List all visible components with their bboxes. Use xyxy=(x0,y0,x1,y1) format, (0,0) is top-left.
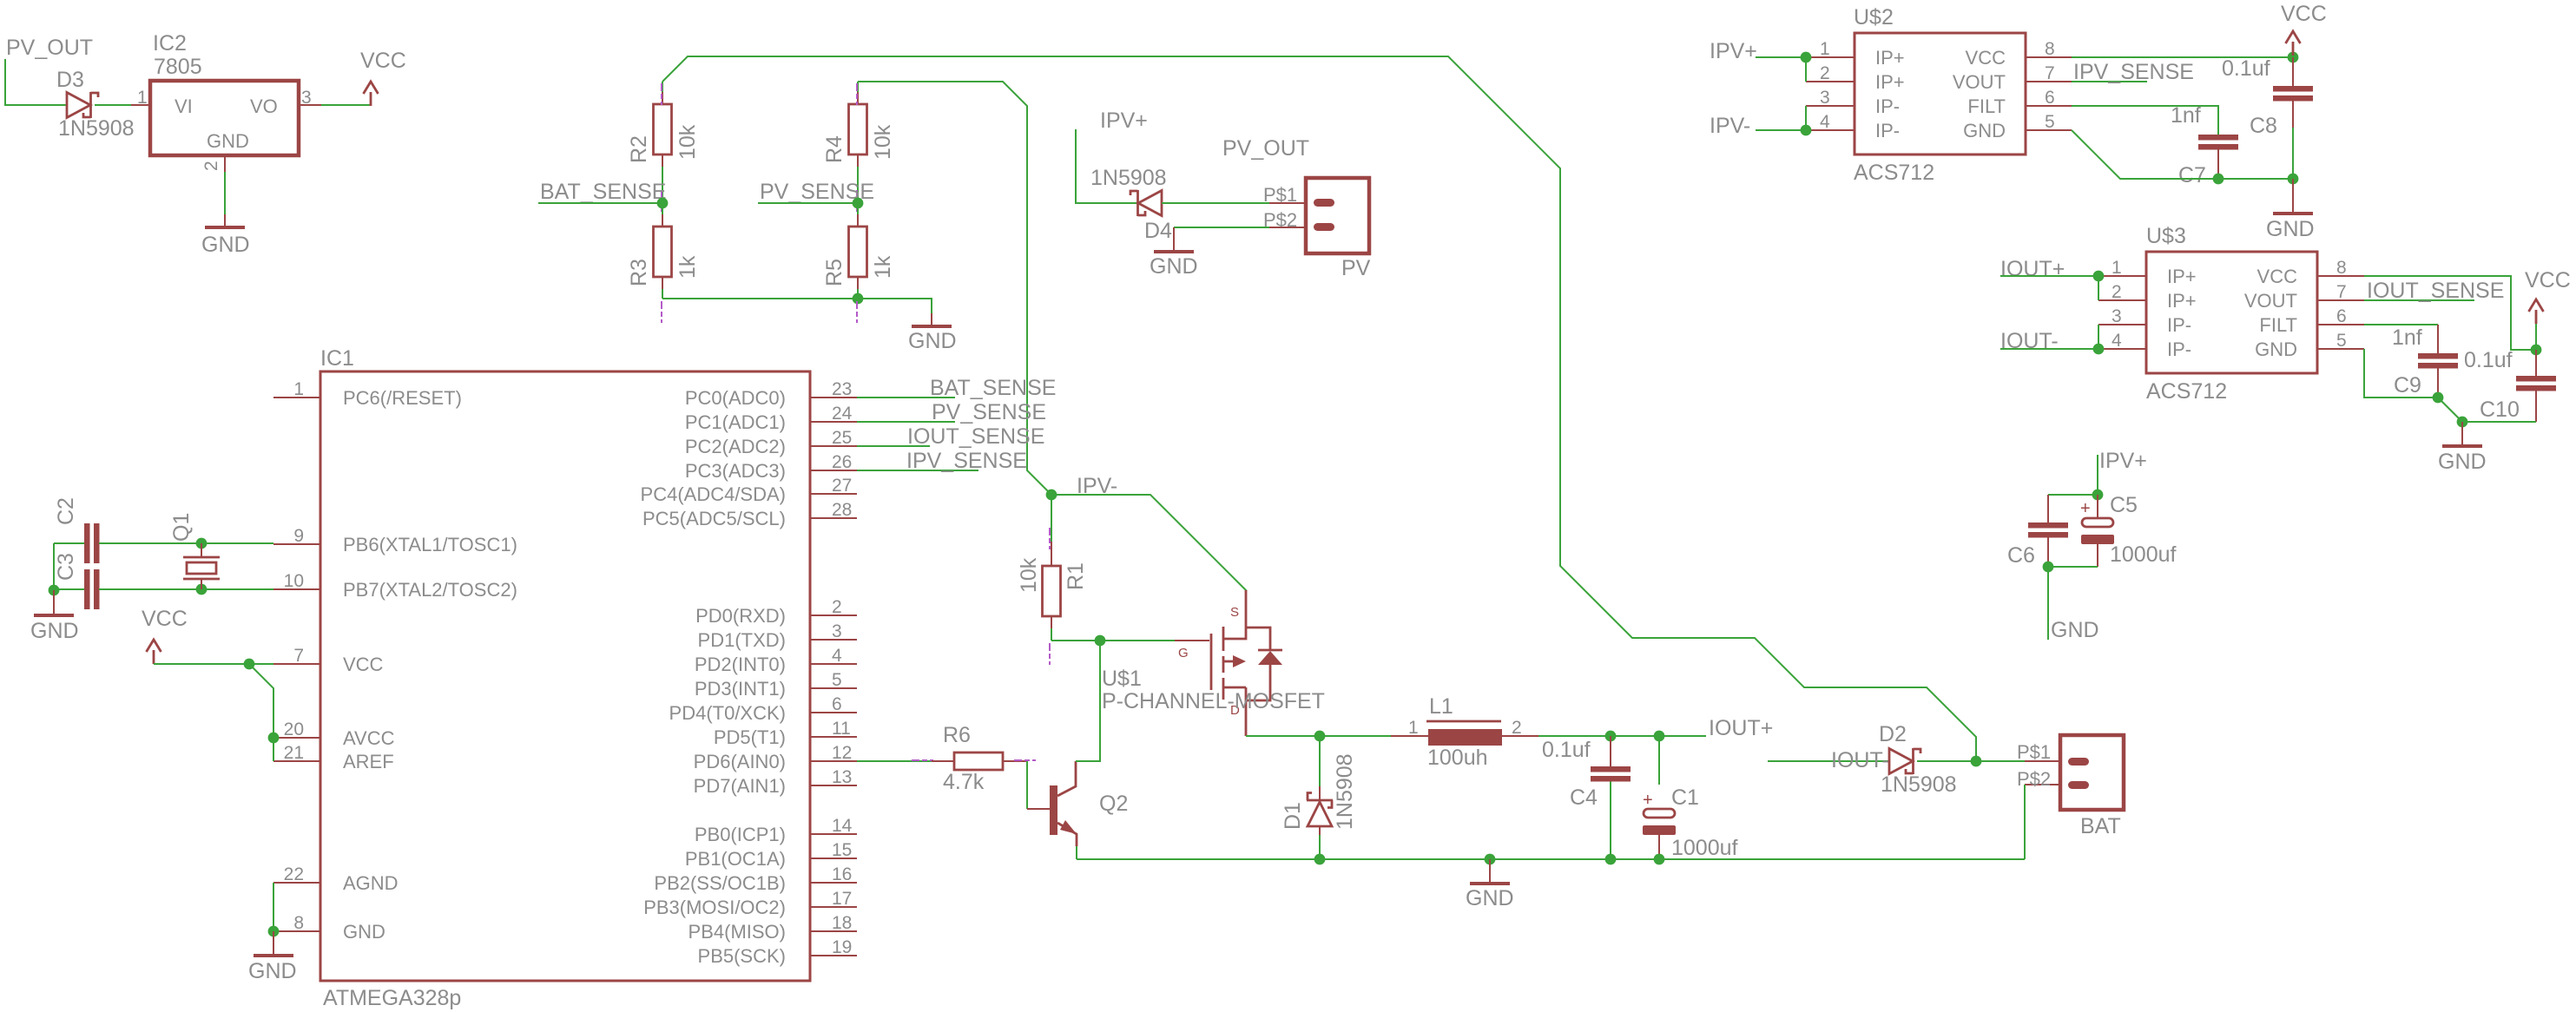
junction drain / D1 xyxy=(1314,731,1326,742)
wire IC1 PC3 net IPV_SENSE xyxy=(857,470,978,471)
svg-text:PV: PV xyxy=(1341,256,1371,280)
svg-text:25: 25 xyxy=(832,428,852,448)
svg-text:PC5(ADC5/SCL): PC5(ADC5/SCL) xyxy=(642,508,786,529)
pin 6 wire IC1 PD4(T0/XCK) xyxy=(810,712,857,713)
svg-text:GND: GND xyxy=(908,329,957,353)
svg-text:1: 1 xyxy=(1820,39,1830,59)
svg-text:PB0(ICP1): PB0(ICP1) xyxy=(695,824,786,845)
pin 5 wire U$2 GND xyxy=(2026,129,2072,131)
wire IC2 GND down xyxy=(224,172,226,214)
svg-text:21: 21 xyxy=(284,743,304,763)
svg-text:C10: C10 xyxy=(2480,398,2520,422)
svg-text:1: 1 xyxy=(2112,258,2122,278)
svg-text:D2: D2 xyxy=(1879,722,1907,746)
pin 9 wire IC1 PB6(XTAL1/TOSC1) xyxy=(273,543,320,545)
svg-text:2: 2 xyxy=(832,597,842,617)
wire AGND to GND pin xyxy=(273,883,274,931)
pin 3 wire IC1 PD1(TXD) xyxy=(810,639,857,641)
pin 24 wire IC1 PC1(ADC1) xyxy=(810,421,857,423)
junction gate node xyxy=(1095,635,1106,647)
svg-text:9: 9 xyxy=(293,526,304,546)
node IPV- junction xyxy=(1046,490,1057,501)
capacitor C9 1nf xyxy=(2437,325,2439,353)
transistor Q2 xyxy=(1050,785,1057,835)
svg-text:VCC: VCC xyxy=(2281,2,2327,26)
svg-text:IPV_SENSE: IPV_SENSE xyxy=(2073,60,2194,84)
svg-text:IP-: IP- xyxy=(1875,120,1900,141)
wire C2 left to ground branch xyxy=(54,542,84,544)
resistor R2 10k xyxy=(662,82,663,92)
capacitor C1 1000uf xyxy=(1658,736,1660,785)
body diode of U$1 xyxy=(1246,628,1270,700)
svg-text:GND: GND xyxy=(1150,254,1198,279)
svg-text:U$3: U$3 xyxy=(2146,224,2186,248)
svg-text:C7: C7 xyxy=(2178,163,2206,187)
svg-text:5: 5 xyxy=(2336,331,2347,351)
svg-text:4: 4 xyxy=(1820,112,1830,132)
svg-text:IC2: IC2 xyxy=(153,31,187,56)
svg-text:0.1uf: 0.1uf xyxy=(2464,348,2513,372)
junction C1 top xyxy=(1654,731,1665,742)
pin 8 wire IC1 GND xyxy=(273,930,320,932)
ground at PV connector xyxy=(1154,250,1194,253)
svg-text:VCC: VCC xyxy=(1966,47,2006,69)
wire divider bottoms to ground rail xyxy=(662,298,858,299)
crystal Q1 xyxy=(196,538,208,549)
junction D1 bottom xyxy=(1314,854,1326,865)
svg-text:IOUT+: IOUT+ xyxy=(1709,716,1773,740)
junction C4 top xyxy=(1605,731,1617,742)
svg-text:4: 4 xyxy=(2112,331,2122,351)
svg-text:2: 2 xyxy=(1820,63,1830,83)
wire U$2 GND pin to ground xyxy=(2072,130,2293,179)
svg-text:S: S xyxy=(1230,605,1239,620)
ground below C9/C10 xyxy=(2461,422,2463,446)
wire IC1 PC1 net PV_SENSE xyxy=(857,421,955,423)
svg-text:2: 2 xyxy=(201,161,221,171)
svg-text:1nf: 1nf xyxy=(2392,325,2422,350)
pin 4 wire U$3 IP- xyxy=(2098,348,2146,350)
pin 27 wire IC1 PC4(ADC4/SDA) xyxy=(810,493,857,495)
svg-text:22: 22 xyxy=(284,864,304,884)
svg-text:AVCC: AVCC xyxy=(343,727,395,749)
pin 4 wire IC1 PD2(INT0) xyxy=(810,663,857,665)
svg-text:10k: 10k xyxy=(675,124,700,160)
svg-text:IP+: IP+ xyxy=(2167,290,2197,312)
svg-text:VCC: VCC xyxy=(142,607,188,631)
svg-text:PC4(ADC4/SDA): PC4(ADC4/SDA) xyxy=(641,483,786,505)
capacitor C3 xyxy=(84,569,90,609)
node IOUT- wire to D2 xyxy=(1768,760,1889,762)
pin 25 wire IC1 PC2(ADC2) xyxy=(810,445,857,447)
ground at crystal caps xyxy=(34,614,74,617)
svg-text:19: 19 xyxy=(832,937,852,957)
svg-text:28: 28 xyxy=(832,500,852,520)
svg-text:VCC: VCC xyxy=(2525,268,2571,292)
svg-text:BAT_SENSE: BAT_SENSE xyxy=(540,180,666,204)
svg-text:3: 3 xyxy=(1820,88,1830,108)
svg-text:GND: GND xyxy=(1963,120,2006,141)
wire BAT P$2 to ground rail xyxy=(2024,785,2026,859)
wire VCC to IC1 VCC pin xyxy=(154,663,273,665)
capacitor C6 xyxy=(2047,495,2049,522)
wire PV pin P$2 to ground xyxy=(1269,227,1306,228)
wire IC2 VO to VCC xyxy=(321,104,371,106)
resistor R5 1k xyxy=(857,203,859,214)
wire U$2 VCC pin to VCC xyxy=(2072,56,2293,58)
svg-text:GND: GND xyxy=(207,130,249,152)
svg-text:ACS712: ACS712 xyxy=(2146,379,2227,404)
pin 2 wire IC2 GND xyxy=(224,155,226,172)
svg-text:PB3(MOSI/OC2): PB3(MOSI/OC2) xyxy=(643,897,786,918)
svg-text:18: 18 xyxy=(832,913,852,933)
wire Q2 collector to gate node xyxy=(1076,641,1100,761)
svg-text:100uh: 100uh xyxy=(1427,746,1488,770)
op-amp IC1 ATMEGA328p microcontroller xyxy=(320,371,810,981)
wire to C6 xyxy=(2048,494,2098,496)
svg-text:5: 5 xyxy=(832,670,842,690)
svg-text:ACS712: ACS712 xyxy=(1854,161,1934,185)
svg-text:1k: 1k xyxy=(871,255,895,279)
svg-text:R1: R1 xyxy=(1064,562,1088,590)
junction IPV+ / C5 C6 xyxy=(2092,490,2104,501)
node GND label below C5/C6 xyxy=(2047,567,2049,640)
svg-text:VI: VI xyxy=(175,95,193,117)
wire C2 right to IC1 PB6 xyxy=(99,542,273,544)
wire D3 cathode to IC2 VI xyxy=(95,104,131,106)
capacitor C10 0.1uf xyxy=(2535,350,2537,376)
svg-text:IPV+: IPV+ xyxy=(1710,39,1757,63)
wire net PV_SENSE from R4 top to IPV- node xyxy=(858,82,1051,495)
capacitor C4 0.1uf xyxy=(1610,736,1611,766)
svg-text:R3: R3 xyxy=(627,259,651,286)
svg-text:ATMEGA328p: ATMEGA328p xyxy=(323,986,461,1010)
op-amp IC2 7805 regulator xyxy=(150,81,299,155)
diode D1 1N5908 xyxy=(1319,736,1321,786)
svg-text:1: 1 xyxy=(1408,718,1419,738)
wire U$2 FILT to C7 xyxy=(2072,106,2218,135)
svg-text:3: 3 xyxy=(832,621,842,641)
svg-text:VO: VO xyxy=(250,95,278,117)
capacitor C2 xyxy=(84,523,90,563)
pin 7 wire U$2 VOUT xyxy=(2026,81,2072,82)
svg-text:BAT: BAT xyxy=(2080,814,2121,838)
resistor R4 10k xyxy=(857,82,859,92)
resistor R1 10k xyxy=(1051,526,1052,542)
pin 21 wire IC1 AREF xyxy=(273,760,320,762)
ground below C8 xyxy=(2292,179,2294,214)
ground at rail xyxy=(1485,854,1496,865)
ground below IC2 xyxy=(205,226,245,229)
svg-text:C9: C9 xyxy=(2394,373,2421,398)
svg-text:IPV+: IPV+ xyxy=(1100,108,1148,133)
svg-text:PB4(MISO): PB4(MISO) xyxy=(688,921,786,943)
pin 2 wire U$3 IP+ xyxy=(2098,299,2146,301)
svg-text:IC1: IC1 xyxy=(320,346,354,371)
svg-text:2: 2 xyxy=(1512,718,1522,738)
svg-text:IP+: IP+ xyxy=(2167,266,2197,287)
svg-text:4.7k: 4.7k xyxy=(943,770,985,794)
svg-text:U$1: U$1 xyxy=(1102,667,1142,691)
svg-text:1N5908: 1N5908 xyxy=(1090,166,1167,190)
svg-text:GND: GND xyxy=(248,959,297,983)
pin 10 wire IC1 PB7(XTAL2/TOSC2) xyxy=(273,588,320,590)
ground below dividers xyxy=(912,325,952,328)
pin 2 wire U$2 IP+ xyxy=(1806,81,1855,82)
wire VCC to AVCC and AREF xyxy=(249,664,273,761)
wire IPV+ down to D4 xyxy=(1076,129,1138,203)
svg-text:12: 12 xyxy=(832,743,852,763)
svg-text:PC1(ADC1): PC1(ADC1) xyxy=(685,411,786,433)
svg-text:PC6(/RESET): PC6(/RESET) xyxy=(343,387,462,409)
node IOUT_SENSE label at U$3 VOUT xyxy=(2364,299,2474,301)
pin 17 wire IC1 PB3(MOSI/OC2) xyxy=(810,906,857,908)
svg-text:PB7(XTAL2/TOSC2): PB7(XTAL2/TOSC2) xyxy=(343,579,517,601)
svg-text:VCC: VCC xyxy=(343,654,384,675)
svg-text:7: 7 xyxy=(2045,63,2055,83)
svg-text:PD5(T1): PD5(T1) xyxy=(714,726,786,748)
svg-text:PV_OUT: PV_OUT xyxy=(6,36,93,60)
wire D2 cathode to BAT P$1 xyxy=(1917,760,2025,762)
pin 1 wire U$2 IP+ xyxy=(1806,56,1855,58)
wire R1 bottom to MOSFET gate xyxy=(1051,640,1175,641)
pin 5 wire IC1 PD3(INT1) xyxy=(810,687,857,689)
svg-text:VCC: VCC xyxy=(2257,266,2298,287)
svg-text:5: 5 xyxy=(2045,112,2055,132)
wire C10 bottom to ground junction xyxy=(2462,421,2536,423)
svg-text:PV_OUT: PV_OUT xyxy=(1222,136,1309,161)
svg-text:PD3(INT1): PD3(INT1) xyxy=(695,678,786,700)
wire U$3 VCC pin to VCC xyxy=(2364,276,2536,350)
svg-text:GND: GND xyxy=(1466,886,1514,910)
wire L1 to output node xyxy=(1538,735,1706,737)
svg-text:1: 1 xyxy=(137,88,148,108)
svg-text:7: 7 xyxy=(293,646,304,666)
wire IPV- to MOSFET source xyxy=(1051,495,1247,591)
svg-text:7805: 7805 xyxy=(154,55,202,79)
svg-text:PB2(SS/OC1B): PB2(SS/OC1B) xyxy=(654,872,786,894)
svg-text:1: 1 xyxy=(293,379,304,399)
svg-text:R6: R6 xyxy=(943,723,971,747)
svg-text:2: 2 xyxy=(2112,282,2122,302)
pin 23 wire IC1 PC0(ADC0) xyxy=(810,397,857,398)
svg-text:R5: R5 xyxy=(822,259,847,286)
pin G wire MOSFET gate stub xyxy=(1175,640,1209,641)
svg-text:10k: 10k xyxy=(871,124,895,160)
wire net BAT_SENSE from R2 top to BAT node (long) xyxy=(662,56,1976,761)
svg-text:L1: L1 xyxy=(1429,694,1453,719)
svg-text:AGND: AGND xyxy=(343,872,399,894)
svg-text:VCC: VCC xyxy=(360,49,406,73)
junction BAT_SENSE at battery positive xyxy=(1971,756,1982,767)
svg-text:PD2(INT0): PD2(INT0) xyxy=(695,654,786,675)
svg-text:Q2: Q2 xyxy=(1099,792,1128,816)
power VCC arrow at IC1 xyxy=(147,640,161,664)
pin 14 wire IC1 PB0(ICP1) xyxy=(810,833,857,835)
node IPV_SENSE label at U$2 VOUT xyxy=(2072,81,2147,82)
connector PV xyxy=(1306,178,1369,253)
pin 20 wire IC1 AVCC xyxy=(273,737,320,739)
wire U$3 FILT to C9 xyxy=(2364,324,2438,325)
pin 1 wire IC1 PC6(/RESET) xyxy=(273,397,320,398)
pin P$2 wire BAT xyxy=(2025,784,2060,785)
connector BAT xyxy=(2060,735,2124,810)
wire IC1 GND down xyxy=(273,931,274,956)
svg-text:P$1: P$1 xyxy=(2017,741,2051,763)
diode D4 1N5908 xyxy=(1138,191,1162,216)
svg-text:FILT: FILT xyxy=(1967,95,2006,117)
pin 11 wire IC1 PD5(T1) xyxy=(810,736,857,738)
resistor R6 4.7k xyxy=(857,760,932,762)
wire PV_OUT to D3 anode xyxy=(5,59,67,105)
svg-text:16: 16 xyxy=(832,864,852,884)
svg-text:24: 24 xyxy=(832,404,853,424)
pin 7 wire IC1 VCC xyxy=(273,663,320,665)
wire ground rail xyxy=(1077,858,2025,860)
svg-text:IOUT-: IOUT- xyxy=(1831,748,1889,772)
svg-text:U$2: U$2 xyxy=(1854,5,1894,30)
svg-text:PD0(RXD): PD0(RXD) xyxy=(695,605,786,627)
svg-text:R4: R4 xyxy=(822,135,847,163)
svg-text:14: 14 xyxy=(832,816,853,836)
svg-text:+: + xyxy=(2080,499,2091,518)
pin P$1 wire BAT xyxy=(2025,760,2060,762)
op-amp U$3 ACS712 current sensor xyxy=(2146,252,2317,373)
svg-text:7: 7 xyxy=(2336,282,2347,302)
svg-text:0.1uf: 0.1uf xyxy=(1542,738,1591,762)
svg-text:10: 10 xyxy=(284,571,304,591)
svg-text:17: 17 xyxy=(832,889,852,909)
svg-text:6: 6 xyxy=(832,694,842,714)
svg-text:PV_SENSE: PV_SENSE xyxy=(932,400,1046,424)
wire U$3 GND pin to C9 bottom xyxy=(2364,349,2438,398)
svg-text:1nf: 1nf xyxy=(2171,103,2201,128)
svg-text:3: 3 xyxy=(2112,306,2122,326)
junction VCC / C10 xyxy=(2531,345,2542,356)
svg-text:D4: D4 xyxy=(1144,219,1172,243)
pin 3 wire U$2 IP- xyxy=(1806,105,1855,107)
svg-text:1N5908: 1N5908 xyxy=(1333,753,1357,830)
pin 1 wire U$3 IP+ xyxy=(2098,275,2146,277)
svg-text:IPV+: IPV+ xyxy=(2099,449,2147,473)
pin 13 wire IC1 PD7(AIN1) xyxy=(810,785,857,786)
pin 2 wire IC1 PD0(RXD) xyxy=(810,614,857,616)
wire R6 to Q2 base xyxy=(1026,761,1028,809)
pin 7 wire U$3 VOUT xyxy=(2317,299,2364,301)
svg-text:D1: D1 xyxy=(1281,802,1305,830)
svg-text:C2: C2 xyxy=(54,497,78,525)
pin 3 wire U$3 IP- xyxy=(2098,324,2146,325)
pin 12 wire IC1 PD6(AIN0) xyxy=(810,760,857,762)
svg-text:D3: D3 xyxy=(56,68,84,92)
svg-text:1k: 1k xyxy=(675,255,700,279)
svg-text:10k: 10k xyxy=(1017,557,1041,593)
wire C3 right to IC1 PB7 xyxy=(99,588,273,590)
svg-text:IP-: IP- xyxy=(2167,314,2191,336)
capacitor C5 1000uf xyxy=(2097,495,2098,518)
svg-text:IP+: IP+ xyxy=(1875,47,1905,69)
svg-text:23: 23 xyxy=(832,379,852,399)
svg-text:IPV_SENSE: IPV_SENSE xyxy=(906,449,1027,473)
svg-text:IPV-: IPV- xyxy=(1710,114,1750,138)
svg-text:6: 6 xyxy=(2045,88,2055,108)
junction VCC branch xyxy=(244,659,255,670)
svg-text:C8: C8 xyxy=(2250,114,2277,138)
svg-text:PC3(ADC3): PC3(ADC3) xyxy=(685,460,786,482)
diode D2 1N5908 xyxy=(1889,749,1913,774)
power VCC arrow at U$2 xyxy=(2286,31,2301,56)
svg-text:BAT_SENSE: BAT_SENSE xyxy=(930,376,1056,400)
svg-text:0.1uf: 0.1uf xyxy=(2222,56,2270,81)
pin 16 wire IC1 PB2(SS/OC1B) xyxy=(810,882,857,884)
svg-text:IP+: IP+ xyxy=(1875,71,1905,93)
svg-text:13: 13 xyxy=(832,767,852,787)
pin 5 wire U$3 GND xyxy=(2317,348,2364,350)
svg-text:AREF: AREF xyxy=(343,751,394,772)
svg-text:GND: GND xyxy=(201,233,250,257)
wire C3 left xyxy=(54,588,84,590)
svg-text:1000uf: 1000uf xyxy=(2110,542,2177,567)
svg-text:PB6(XTAL1/TOSC1): PB6(XTAL1/TOSC1) xyxy=(343,534,517,555)
inductor L1 100uh xyxy=(1391,735,1428,737)
svg-text:PD7(AIN1): PD7(AIN1) xyxy=(694,775,786,797)
junction C8 top xyxy=(2288,52,2299,63)
ground below IC1 xyxy=(254,954,293,957)
pin 6 wire U$3 FILT xyxy=(2317,324,2364,325)
svg-text:P-CHANNEL-MOSFET: P-CHANNEL-MOSFET xyxy=(1102,689,1325,713)
transistor U$1 P-CHANNEL-MOSFET xyxy=(1210,634,1213,690)
svg-text:PD4(T0/XCK): PD4(T0/XCK) xyxy=(669,702,786,724)
svg-text:+: + xyxy=(1643,791,1653,810)
wire IC1 PC0 net BAT_SENSE xyxy=(857,397,955,398)
svg-text:GND: GND xyxy=(30,619,79,643)
svg-text:IOUT+: IOUT+ xyxy=(2000,257,2065,281)
diode D3 1N5908 xyxy=(67,93,90,118)
svg-text:1N5908: 1N5908 xyxy=(1881,772,1957,797)
op-amp U$2 ACS712 current sensor xyxy=(1855,33,2026,154)
svg-text:20: 20 xyxy=(284,720,304,739)
power VCC arrow at IC2 output xyxy=(364,82,379,106)
svg-text:C3: C3 xyxy=(54,553,78,581)
pin 22 wire IC1 AGND xyxy=(273,882,320,884)
svg-text:15: 15 xyxy=(832,840,852,860)
svg-text:GND: GND xyxy=(2266,217,2315,241)
pin 15 wire IC1 PB1(OC1A) xyxy=(810,858,857,859)
capacitor C8 0.1uf xyxy=(2292,57,2294,86)
pin 6 wire U$2 FILT xyxy=(2026,105,2072,107)
wire MOSFET drain to L1 xyxy=(1246,735,1318,737)
svg-text:VOUT: VOUT xyxy=(2244,290,2297,312)
svg-text:C1: C1 xyxy=(1671,785,1699,810)
svg-text:26: 26 xyxy=(832,452,852,472)
svg-text:8: 8 xyxy=(2045,39,2055,59)
capacitor C7 1nf xyxy=(2198,135,2238,141)
svg-text:IOUT_SENSE: IOUT_SENSE xyxy=(2367,279,2504,303)
svg-text:GND: GND xyxy=(343,921,385,943)
pin 19 wire IC1 PB5(SCK) xyxy=(810,955,857,956)
svg-text:PD1(TXD): PD1(TXD) xyxy=(698,629,786,651)
pin 8 wire U$2 VCC xyxy=(2026,56,2072,58)
svg-text:P$2: P$2 xyxy=(2017,768,2051,790)
svg-text:11: 11 xyxy=(832,719,851,739)
svg-text:1000uf: 1000uf xyxy=(1671,836,1738,860)
svg-text:4: 4 xyxy=(832,646,842,666)
svg-text:P$1: P$1 xyxy=(1263,184,1297,206)
svg-text:PB5(SCK): PB5(SCK) xyxy=(698,945,786,967)
svg-text:IP-: IP- xyxy=(1875,95,1900,117)
svg-text:IP-: IP- xyxy=(2167,338,2191,360)
svg-text:1N5908: 1N5908 xyxy=(58,116,135,141)
